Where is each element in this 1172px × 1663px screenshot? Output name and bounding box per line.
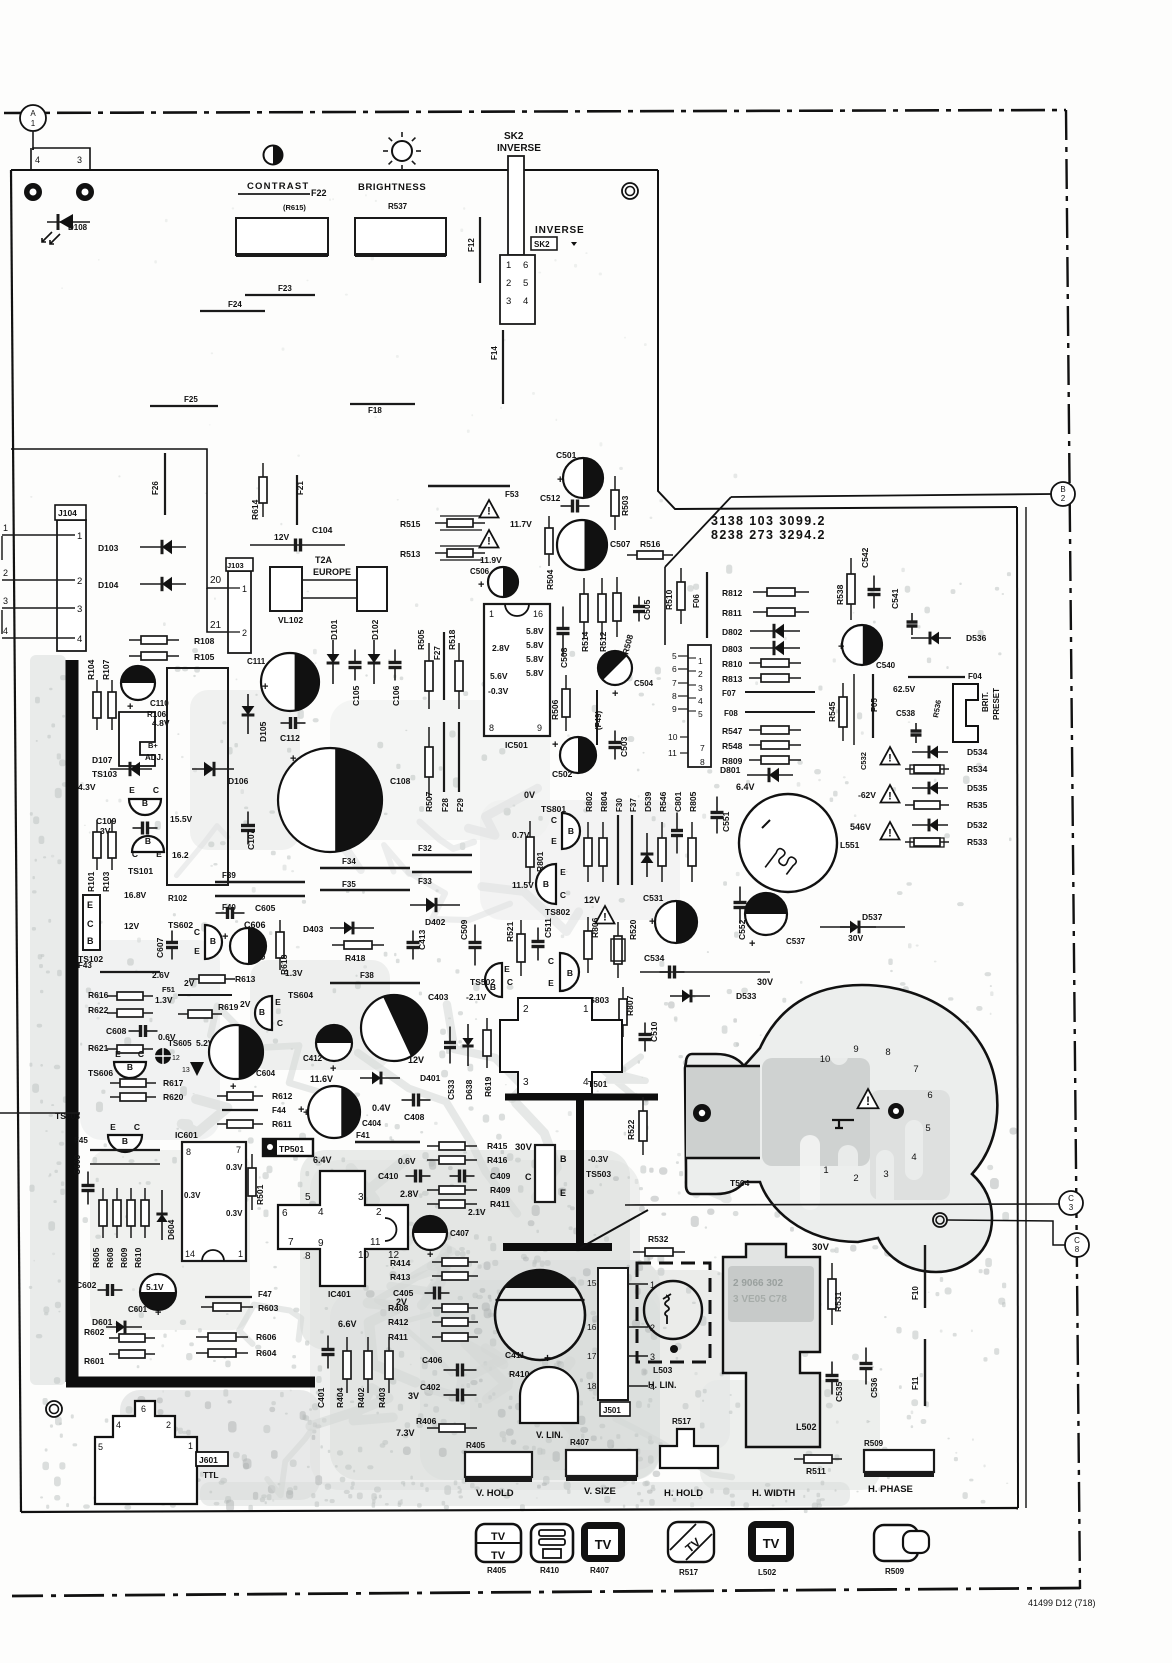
transistor TS604 xyxy=(255,996,272,1030)
wire F10 xyxy=(924,1245,926,1308)
svg-text:13: 13 xyxy=(182,1067,190,1074)
resistor R612 xyxy=(217,1092,263,1100)
svg-text:R107: R107 xyxy=(101,659,111,680)
wire F08 xyxy=(745,711,815,713)
svg-text:R620: R620 xyxy=(163,1092,184,1102)
board outline right edge xyxy=(1017,507,1018,1508)
svg-text:7: 7 xyxy=(236,1145,241,1155)
capacitor C402 xyxy=(444,1389,477,1402)
svg-text:8: 8 xyxy=(489,723,494,733)
resistor R616 xyxy=(107,992,153,1000)
transistor TS603 xyxy=(108,1135,142,1152)
svg-text:0.6V: 0.6V xyxy=(398,1156,416,1166)
capacitor C541 xyxy=(907,613,918,635)
svg-text:E: E xyxy=(156,849,162,859)
svg-text:F14: F14 xyxy=(490,346,499,360)
potentiometer R407 V.SIZE xyxy=(566,1450,637,1478)
resistor R101 xyxy=(93,820,101,870)
resistor R515 xyxy=(435,519,485,527)
IC IC401 xyxy=(278,1171,408,1286)
svg-text:R603: R603 xyxy=(258,1303,279,1313)
svg-text:R522: R522 xyxy=(626,1119,636,1140)
svg-text:9: 9 xyxy=(537,723,542,733)
resistor R412 xyxy=(432,1318,478,1326)
svg-text:C608: C608 xyxy=(106,1026,127,1036)
svg-text:3V: 3V xyxy=(408,1391,419,1401)
solder pad right xyxy=(76,183,94,201)
capacitor C535 xyxy=(826,1362,839,1395)
svg-text:R545: R545 xyxy=(827,701,837,722)
wire F12 xyxy=(479,217,481,283)
svg-text:F23: F23 xyxy=(278,284,292,293)
svg-text:4: 4 xyxy=(3,626,8,636)
connector J104 xyxy=(55,505,86,651)
svg-text:C512: C512 xyxy=(540,493,561,503)
svg-text:L551: L551 xyxy=(840,840,860,850)
svg-text:7: 7 xyxy=(700,743,705,753)
capacitor C538 xyxy=(911,723,922,743)
svg-text:J601: J601 xyxy=(199,1455,218,1465)
svg-text:C601: C601 xyxy=(128,1305,148,1314)
svg-text:R410: R410 xyxy=(540,1566,560,1575)
svg-text:R414: R414 xyxy=(390,1258,411,1268)
svg-text:C532: C532 xyxy=(859,752,868,770)
label J601 xyxy=(196,1452,228,1466)
transistor TS602 xyxy=(205,925,222,959)
svg-text:C504: C504 xyxy=(634,679,654,688)
svg-text:R407: R407 xyxy=(590,1566,610,1575)
capacitor C510 xyxy=(639,1023,652,1052)
svg-text:D638: D638 xyxy=(464,1079,474,1100)
diode D601 xyxy=(106,1321,142,1334)
arrow marker xyxy=(571,242,577,246)
LED D108 xyxy=(42,214,90,244)
svg-text:E: E xyxy=(115,1049,121,1059)
svg-text:R812: R812 xyxy=(722,588,743,598)
capacitor C534 xyxy=(660,966,685,979)
svg-text:12: 12 xyxy=(172,1055,180,1062)
svg-text:C801: C801 xyxy=(673,791,683,812)
warning triangle xyxy=(480,500,499,518)
svg-text:R621: R621 xyxy=(88,1043,109,1053)
wire F27 xyxy=(443,632,445,700)
thick bus T501 vertical xyxy=(576,1097,584,1247)
svg-text:12V: 12V xyxy=(124,921,139,931)
svg-text:J104: J104 xyxy=(58,508,77,518)
svg-text:IC501: IC501 xyxy=(505,740,528,750)
resistor R619 xyxy=(178,1010,222,1018)
capacitor C533 xyxy=(444,1027,456,1064)
svg-text:E: E xyxy=(110,1122,116,1132)
capacitor C105 xyxy=(349,650,362,681)
screw hole bottom left xyxy=(46,1401,62,1417)
dash-dot chassis border top xyxy=(4,110,1066,113)
svg-text:6: 6 xyxy=(282,1208,288,1219)
svg-text:F11: F11 xyxy=(911,1376,920,1390)
wire F40 xyxy=(215,895,305,897)
wire F28 xyxy=(443,722,445,792)
svg-text:5.6V: 5.6V xyxy=(490,671,508,681)
resistor R604 xyxy=(196,1349,248,1357)
svg-text:PRESET: PRESET xyxy=(992,688,1001,720)
preset block BRIT PRESET xyxy=(953,684,978,742)
wire F37 xyxy=(631,815,633,885)
resistor R108 xyxy=(129,636,179,644)
pad near C8 wire xyxy=(933,1213,947,1227)
svg-text:1: 1 xyxy=(3,523,8,533)
resistor R409 xyxy=(427,1186,477,1194)
svg-text:F51: F51 xyxy=(162,985,175,994)
coil L502 block H.WIDTH xyxy=(723,1244,820,1447)
svg-text:+: + xyxy=(552,739,558,751)
svg-text:0.4V: 0.4V xyxy=(372,1103,391,1113)
inductor L551 xyxy=(739,794,837,892)
diode D402 xyxy=(410,898,460,912)
svg-text:C105: C105 xyxy=(351,685,361,706)
IC IC501 xyxy=(484,604,550,736)
board edge diagonal near J501 xyxy=(580,1210,648,1248)
label F22 xyxy=(238,193,310,195)
svg-text:0.7V: 0.7V xyxy=(512,830,530,840)
capacitor C408 xyxy=(402,1094,431,1107)
resistor R107 xyxy=(108,680,116,730)
connector 11-pin xyxy=(668,645,711,767)
wire diagonal from R516 to B2 line xyxy=(665,497,731,567)
resistor R510 xyxy=(677,568,685,624)
svg-text:12V: 12V xyxy=(584,895,600,905)
svg-text:R408: R408 xyxy=(388,1303,409,1313)
svg-text:BRIGHTNESS: BRIGHTNESS xyxy=(358,182,426,193)
terminal box pins 4 3 xyxy=(31,148,90,170)
svg-text:1: 1 xyxy=(77,531,82,542)
svg-text:+: + xyxy=(298,1104,304,1116)
resistor R408 xyxy=(432,1304,478,1312)
diode D537 xyxy=(840,921,876,934)
resistor R547 xyxy=(749,726,801,734)
svg-text:3: 3 xyxy=(883,1169,888,1180)
svg-text:1: 1 xyxy=(823,1165,828,1176)
capacitor C507 xyxy=(557,520,607,570)
svg-text:BRIT.: BRIT. xyxy=(981,692,990,712)
warning triangle xyxy=(480,530,499,548)
svg-text:R513: R513 xyxy=(400,549,421,559)
connector A1 xyxy=(20,105,46,131)
svg-text:+: + xyxy=(544,1351,551,1365)
svg-text:12V: 12V xyxy=(274,532,289,542)
svg-text:+: + xyxy=(427,1249,433,1261)
wire F06 xyxy=(706,572,708,638)
svg-text:C502: C502 xyxy=(552,769,573,779)
svg-text:TS502: TS502 xyxy=(470,977,495,987)
svg-text:5: 5 xyxy=(305,1192,311,1203)
wire F41 xyxy=(355,1141,420,1143)
svg-text:D532: D532 xyxy=(967,820,988,830)
svg-text:T504: T504 xyxy=(730,1178,750,1188)
diode D533 xyxy=(670,990,710,1003)
svg-text:0.3V: 0.3V xyxy=(184,1191,201,1200)
resistor R103 xyxy=(108,820,116,870)
resistor R601 xyxy=(109,1350,155,1358)
svg-text:E: E xyxy=(87,900,93,910)
capacitor C552 xyxy=(734,887,747,924)
svg-text:C403: C403 xyxy=(428,992,449,1002)
svg-text:T501: T501 xyxy=(588,1079,608,1089)
svg-text:E: E xyxy=(560,1188,566,1198)
svg-text:F53: F53 xyxy=(505,490,519,499)
svg-text:!: ! xyxy=(888,828,892,840)
svg-text:C542: C542 xyxy=(860,547,870,568)
capacitor C536 xyxy=(860,1348,873,1385)
capacitor C413 xyxy=(407,931,420,960)
svg-text:2.1V: 2.1V xyxy=(468,1207,486,1217)
wire to connector C8 xyxy=(947,1220,1065,1245)
resistor R531 xyxy=(828,1263,836,1325)
svg-text:4: 4 xyxy=(35,155,40,165)
svg-text:2.8V: 2.8V xyxy=(492,643,510,653)
svg-text:7.3V: 7.3V xyxy=(396,1428,415,1438)
svg-text:F39: F39 xyxy=(222,871,236,880)
svg-text:E: E xyxy=(551,836,557,846)
resistor R546 xyxy=(658,822,666,882)
wire F11 xyxy=(924,1339,926,1406)
svg-text:9: 9 xyxy=(318,1238,324,1249)
svg-text:5.1V: 5.1V xyxy=(146,1282,164,1292)
svg-text:3 VE05 C78: 3 VE05 C78 xyxy=(733,1294,787,1305)
svg-text:C401: C401 xyxy=(316,1387,326,1408)
svg-text:3: 3 xyxy=(358,1192,364,1203)
wire from A1 down xyxy=(32,131,34,150)
svg-text:C410: C410 xyxy=(378,1171,399,1181)
svg-text:2.6V: 2.6V xyxy=(152,970,170,980)
svg-text:SK2: SK2 xyxy=(504,131,524,142)
svg-text:3: 3 xyxy=(3,596,8,606)
svg-text:R534: R534 xyxy=(967,764,988,774)
svg-text:C509: C509 xyxy=(459,919,469,940)
icon R407 TV solid xyxy=(581,1522,625,1562)
svg-text:F27: F27 xyxy=(433,646,442,660)
svg-text:3: 3 xyxy=(1069,1203,1074,1212)
svg-text:F06: F06 xyxy=(692,594,701,608)
capacitor C401 xyxy=(322,1336,335,1369)
resistor R503 xyxy=(611,476,619,530)
svg-text:V. SIZE: V. SIZE xyxy=(584,1486,616,1497)
svg-text:2: 2 xyxy=(3,568,8,578)
svg-text:5: 5 xyxy=(523,278,528,289)
svg-text:TS605: TS605 xyxy=(168,1039,192,1048)
svg-text:4: 4 xyxy=(523,296,528,307)
diode D103 xyxy=(140,540,186,554)
resistor R402 xyxy=(364,1337,372,1393)
diode D403 xyxy=(330,922,374,935)
svg-text:16.8V: 16.8V xyxy=(124,890,147,900)
potentiometer R615 contrast xyxy=(236,218,328,255)
svg-text:R535: R535 xyxy=(967,800,988,810)
svg-text:6.4V: 6.4V xyxy=(736,782,755,792)
svg-text:C109: C109 xyxy=(96,816,117,826)
wire F21 xyxy=(296,475,298,525)
resistor R514 xyxy=(580,578,588,638)
svg-text:3: 3 xyxy=(77,604,82,615)
test pad TS605 xyxy=(155,1048,171,1064)
svg-text:11: 11 xyxy=(668,748,677,758)
connector C8 xyxy=(1065,1233,1089,1257)
svg-text:D107: D107 xyxy=(92,755,113,765)
svg-text:R604: R604 xyxy=(256,1348,277,1358)
svg-text:C106: C106 xyxy=(391,685,401,706)
svg-text:30V: 30V xyxy=(848,933,863,943)
svg-text:C609: C609 xyxy=(72,1154,82,1175)
svg-text:C: C xyxy=(1074,1236,1080,1245)
svg-text:11.9V: 11.9V xyxy=(480,555,502,565)
svg-text:C604: C604 xyxy=(256,1069,276,1078)
svg-text:4: 4 xyxy=(77,634,82,645)
svg-text:4: 4 xyxy=(318,1207,324,1218)
svg-text:21: 21 xyxy=(210,620,222,631)
svg-text:11.7V: 11.7V xyxy=(510,519,532,529)
svg-text:R538: R538 xyxy=(835,584,845,605)
resistor R414 xyxy=(432,1258,478,1266)
wire F53 xyxy=(428,485,510,487)
capacitor C109 xyxy=(133,822,158,835)
svg-text:C407: C407 xyxy=(450,1229,470,1238)
svg-text:F21: F21 xyxy=(296,481,305,495)
board outline right upper edge xyxy=(658,170,1017,509)
resistor R619 xyxy=(483,1018,491,1068)
resistor R610 xyxy=(141,1188,149,1238)
svg-text:C538: C538 xyxy=(896,709,916,718)
transistor socket TS102 xyxy=(83,895,100,950)
svg-text:41499 D12 (718): 41499 D12 (718) xyxy=(1028,1598,1096,1608)
svg-text:C: C xyxy=(138,1049,144,1059)
svg-text:R104: R104 xyxy=(86,659,96,680)
svg-text:1: 1 xyxy=(242,584,247,594)
svg-text:R611: R611 xyxy=(272,1119,292,1129)
svg-text:6.6V: 6.6V xyxy=(338,1319,357,1329)
svg-text:E: E xyxy=(548,978,554,988)
svg-text:F35: F35 xyxy=(342,880,356,889)
svg-text:R507: R507 xyxy=(424,791,434,812)
svg-text:C: C xyxy=(548,956,554,966)
svg-text:10: 10 xyxy=(668,732,678,742)
svg-text:12V: 12V xyxy=(408,1055,424,1065)
svg-text:D103: D103 xyxy=(98,543,119,553)
resistor R812 xyxy=(753,588,809,596)
capacitor C108 xyxy=(278,748,382,852)
svg-text:C541: C541 xyxy=(890,588,900,609)
svg-text:0.3V: 0.3V xyxy=(226,1163,243,1172)
svg-text:F45: F45 xyxy=(74,1136,88,1145)
capacitor C405 xyxy=(425,1287,450,1300)
svg-text:C408: C408 xyxy=(404,1112,425,1122)
svg-text:C605: C605 xyxy=(255,903,276,913)
svg-text:R811: R811 xyxy=(722,608,742,618)
svg-text:R521: R521 xyxy=(505,921,515,942)
capacitor C504 xyxy=(591,644,632,685)
wire F18 xyxy=(350,403,415,405)
svg-text:9: 9 xyxy=(853,1044,858,1055)
svg-text:R608: R608 xyxy=(105,1247,115,1268)
svg-text:3: 3 xyxy=(523,1077,529,1088)
wire F07 xyxy=(745,691,815,693)
svg-text:R802: R802 xyxy=(584,791,594,812)
svg-text:TS103: TS103 xyxy=(92,769,117,779)
dash-dot chassis border right xyxy=(1066,110,1080,1589)
svg-text:R108: R108 xyxy=(194,636,215,646)
svg-text:D402: D402 xyxy=(425,917,446,927)
capacitor C511 xyxy=(532,928,545,961)
svg-text:+: + xyxy=(290,753,296,765)
svg-text:R547: R547 xyxy=(722,726,743,736)
capacitor C602 xyxy=(98,1284,123,1296)
potentiometer R509 H.PHASE xyxy=(864,1450,934,1474)
svg-text:EUROPE: EUROPE xyxy=(313,567,351,577)
diode D532 xyxy=(912,819,948,832)
svg-text:B+: B+ xyxy=(148,741,158,750)
svg-text:R622: R622 xyxy=(88,1005,109,1015)
svg-text:F41: F41 xyxy=(356,1131,370,1140)
svg-text:D403: D403 xyxy=(303,924,324,934)
resistor R801 xyxy=(526,821,534,883)
svg-text:TS503: TS503 xyxy=(586,1169,611,1179)
capacitor C532 xyxy=(853,674,855,745)
svg-text:R806: R806 xyxy=(590,917,600,938)
svg-text:C602: C602 xyxy=(76,1280,97,1290)
svg-text:D801: D801 xyxy=(720,765,741,775)
svg-text:C409: C409 xyxy=(490,1171,511,1181)
svg-text:R601: R601 xyxy=(84,1356,105,1366)
svg-text:7: 7 xyxy=(288,1237,294,1248)
svg-text:7: 7 xyxy=(913,1064,918,1075)
svg-text:R403: R403 xyxy=(377,1387,387,1408)
resistor R504 xyxy=(545,516,553,566)
connector J501 xyxy=(587,1268,655,1400)
inductor L503 dashed box xyxy=(637,1263,710,1362)
diode D106 xyxy=(192,762,234,776)
resistor R603 xyxy=(201,1303,253,1311)
svg-text:16: 16 xyxy=(533,609,543,619)
screw hole top right xyxy=(622,183,638,199)
svg-text:R612: R612 xyxy=(272,1091,293,1101)
svg-text:F28: F28 xyxy=(441,798,450,812)
resistor R805 xyxy=(688,822,696,882)
svg-text:C503: C503 xyxy=(619,736,629,757)
svg-text:TS801: TS801 xyxy=(541,804,566,814)
warning triangle xyxy=(596,906,615,924)
svg-text:1: 1 xyxy=(238,1249,243,1259)
board outline left edge xyxy=(11,170,21,1512)
svg-text:F43: F43 xyxy=(78,961,92,970)
svg-text:R619: R619 xyxy=(218,1002,239,1012)
svg-text:2: 2 xyxy=(698,669,703,679)
icon R410 lines xyxy=(531,1524,573,1562)
svg-text:15.5V: 15.5V xyxy=(170,814,193,824)
svg-text:B: B xyxy=(145,836,151,846)
resistor R506 xyxy=(562,675,570,731)
svg-text:C: C xyxy=(153,785,159,795)
svg-text:SK2: SK2 xyxy=(534,240,550,249)
svg-text:IC601: IC601 xyxy=(175,1130,198,1140)
flyback transformer T504 outline xyxy=(685,985,997,1272)
svg-text:R616: R616 xyxy=(88,990,109,1000)
diode D638 xyxy=(462,1024,473,1066)
svg-text:1: 1 xyxy=(188,1441,193,1451)
svg-text:D802: D802 xyxy=(722,627,743,637)
thick bus T501 top xyxy=(505,1094,658,1101)
svg-text:11.6V: 11.6V xyxy=(310,1074,333,1084)
svg-text:6: 6 xyxy=(927,1090,932,1101)
svg-text:F10: F10 xyxy=(911,1286,920,1300)
wire F34 xyxy=(320,867,410,869)
